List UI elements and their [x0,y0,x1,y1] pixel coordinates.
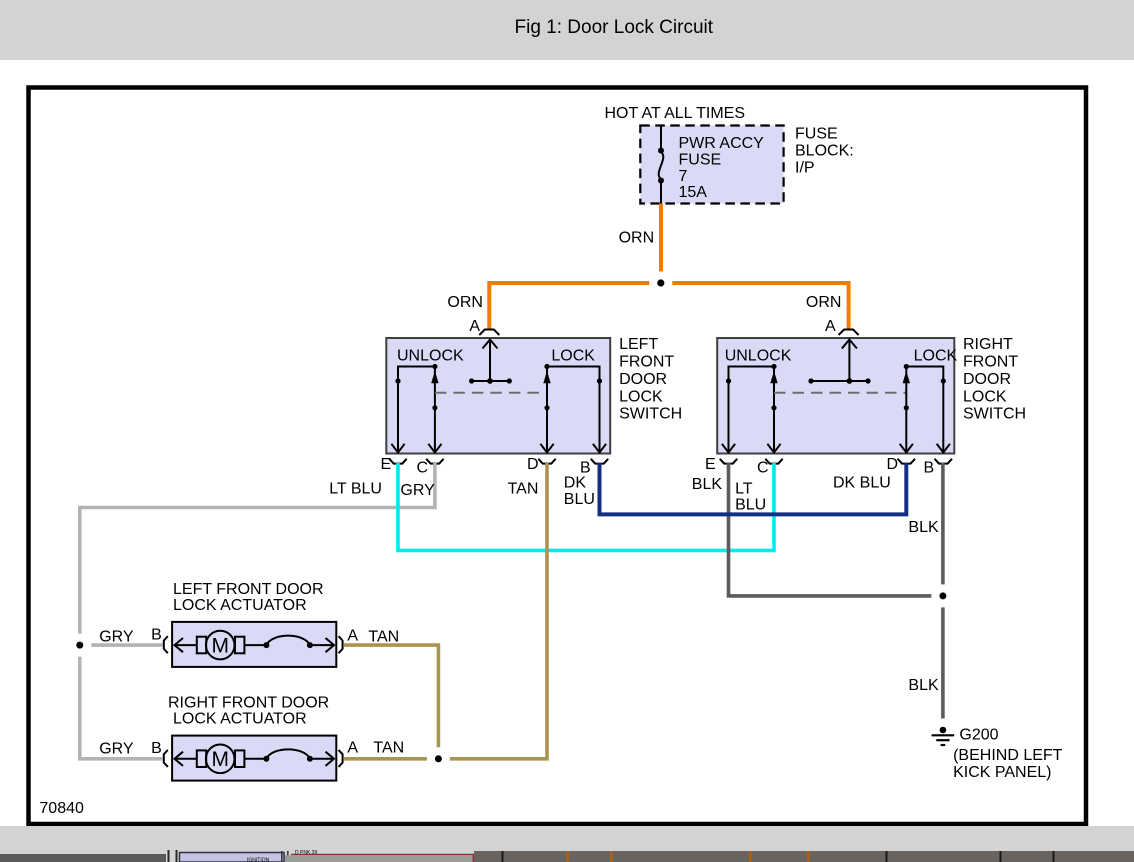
svg-text:LEFT: LEFT [619,336,658,353]
connector cup B left actuator [164,636,168,653]
wire ORN right segment [672,283,848,331]
svg-text:PWR ACCY: PWR ACCY [679,135,765,152]
svg-text:DOOR: DOOR [619,371,667,388]
svg-text:D: D [887,456,899,473]
svg-text:ORN: ORN [806,294,842,311]
bottom strip next-figure sliver [0,826,1134,862]
svg-text:GRY: GRY [99,741,134,758]
right front door lock actuator M2 [172,736,336,781]
common bar [472,380,510,382]
svg-text:ORN: ORN [447,294,483,311]
svg-text:LOCK: LOCK [963,388,1007,405]
pin B contact [906,367,943,454]
svg-text:B: B [924,460,935,477]
svg-text:LT: LT [735,481,753,498]
svg-text:TAN: TAN [508,481,539,498]
svg-text:G200: G200 [959,727,998,744]
svg-text:B: B [151,627,162,644]
wire ORN from fuse to junction [659,204,663,272]
pin B contact [547,367,600,454]
svg-text:15A: 15A [679,184,708,201]
node tan junction [435,755,442,762]
svg-text:E: E [381,456,392,473]
pin E contact [729,367,775,454]
pin D contact with arrow [905,367,907,454]
wire GRY lower segment to right actuator [80,657,163,759]
svg-text:(BEHIND LEFT: (BEHIND LEFT [953,747,1063,764]
svg-text:BLK: BLK [692,476,723,493]
node gray junction [76,642,83,649]
svg-text:SWITCH: SWITCH [619,406,682,423]
svg-text:LT BLU: LT BLU [329,481,382,498]
svg-text:FUSE: FUSE [795,126,838,143]
svg-text:DK: DK [564,475,587,492]
svg-text:TAN: TAN [368,629,399,646]
wire LT BLU left switch E to right switch C [398,463,774,550]
svg-text:B: B [151,740,162,757]
svg-text:7: 7 [679,168,688,185]
svg-text:RIGHT FRONT DOOR: RIGHT FRONT DOOR [168,695,329,712]
svg-text:RIGHT: RIGHT [963,336,1013,353]
left switch pin cups [389,459,406,464]
connector cup A right actuator [339,750,343,767]
svg-text:DK BLU: DK BLU [833,475,891,492]
svg-text:ORN: ORN [619,229,655,246]
wire GRY branch to left actuator [91,643,162,647]
dark band right [474,851,1134,862]
common bar [811,380,868,382]
pin A stem with up arrow [848,340,850,382]
svg-text:A: A [347,628,358,645]
svg-text:Fig 1: Door Lock Circuit: Fig 1: Door Lock Circuit [515,17,714,38]
svg-text:E: E [705,456,716,473]
pin C contact with arrow [773,367,775,454]
right switch pin cups [720,459,737,464]
linkage dashed line [435,392,547,394]
svg-text:BLU: BLU [564,491,595,508]
connector cup A left actuator [339,636,343,653]
switch body [717,338,954,454]
wire DK BLU left switch B to right switch D [600,463,907,514]
svg-text:A: A [825,318,836,335]
svg-text:IGNITION: IGNITION [247,857,270,862]
connector cap A right [839,330,859,336]
svg-text:D: D [527,456,539,473]
connector cap A left [479,330,499,336]
svg-text:LOCK ACTUATOR: LOCK ACTUATOR [173,711,307,728]
svg-text:LOCK: LOCK [619,388,663,405]
wire ORN horizontal bus [489,283,649,331]
svg-text:M: M [211,748,229,771]
svg-text:UNLOCK: UNLOCK [725,348,792,365]
wire TAN left switch D to actuator junction [450,463,547,759]
pin E contact [398,367,435,454]
title bar [0,0,1134,60]
pin C contact with arrow [434,367,436,454]
svg-text:FRONT: FRONT [963,354,1018,371]
gray gap below frame [0,826,1134,862]
svg-text:BLOCK:: BLOCK: [795,143,854,160]
left front door lock switch U1 [386,338,610,454]
diagram frame border [29,88,1087,825]
pin D contact with arrow [546,367,548,454]
right front door lock switch U2 [717,338,957,454]
svg-text:A: A [347,740,358,757]
wire TAN segment to right actuator A [344,757,427,761]
left front door lock actuator M1 [172,622,336,667]
svg-text:LOCK ACTUATOR: LOCK ACTUATOR [173,597,307,614]
svg-text:BLU: BLU [735,496,766,513]
node orange junction [657,279,664,286]
node black junction [939,592,946,599]
wire TAN left actuator A branch [344,645,438,747]
svg-text:SWITCH: SWITCH [963,406,1026,423]
svg-text:C: C [417,460,429,477]
maroon box sliver [281,851,283,862]
lavender box sliver [180,853,285,862]
svg-text:M: M [211,635,229,658]
svg-text:LOCK: LOCK [551,348,595,365]
wire GRY left switch C to actuators [80,463,435,634]
linkage dashed line [774,392,906,394]
fuse block dashed box [640,126,783,204]
fuse F7 element [658,126,664,204]
ground G200 [932,727,955,745]
svg-text:DOOR: DOOR [963,371,1011,388]
svg-text:LOCK: LOCK [914,348,958,365]
svg-text:FRONT: FRONT [619,354,674,371]
svg-text:C: C [757,460,769,477]
pin A stem with up arrow [489,340,491,382]
wire BLK right switch E to B wire [729,463,932,596]
svg-text:TAN: TAN [373,740,404,757]
svg-text:KICK PANEL): KICK PANEL) [953,764,1051,781]
svg-text:HOT AT ALL TIMES: HOT AT ALL TIMES [605,105,746,122]
svg-text:GRY: GRY [99,629,134,646]
connector cup B right actuator [164,750,168,767]
svg-text:FUSE: FUSE [679,151,722,168]
svg-text:A: A [469,318,480,335]
svg-text:70840: 70840 [39,800,84,817]
dark band left [0,854,166,862]
svg-text:BLK: BLK [908,677,939,694]
svg-text:LEFT FRONT DOOR: LEFT FRONT DOOR [173,581,324,598]
svg-text:I/P: I/P [795,160,815,177]
svg-text:GRY: GRY [400,482,435,499]
svg-text:UNLOCK: UNLOCK [397,348,464,365]
tick marks [168,850,170,862]
wire BLK right switch B to ground [941,463,945,584]
svg-text:BLK: BLK [908,519,939,536]
switch body [386,338,610,454]
wire BLK to ground lower segment [941,607,945,718]
